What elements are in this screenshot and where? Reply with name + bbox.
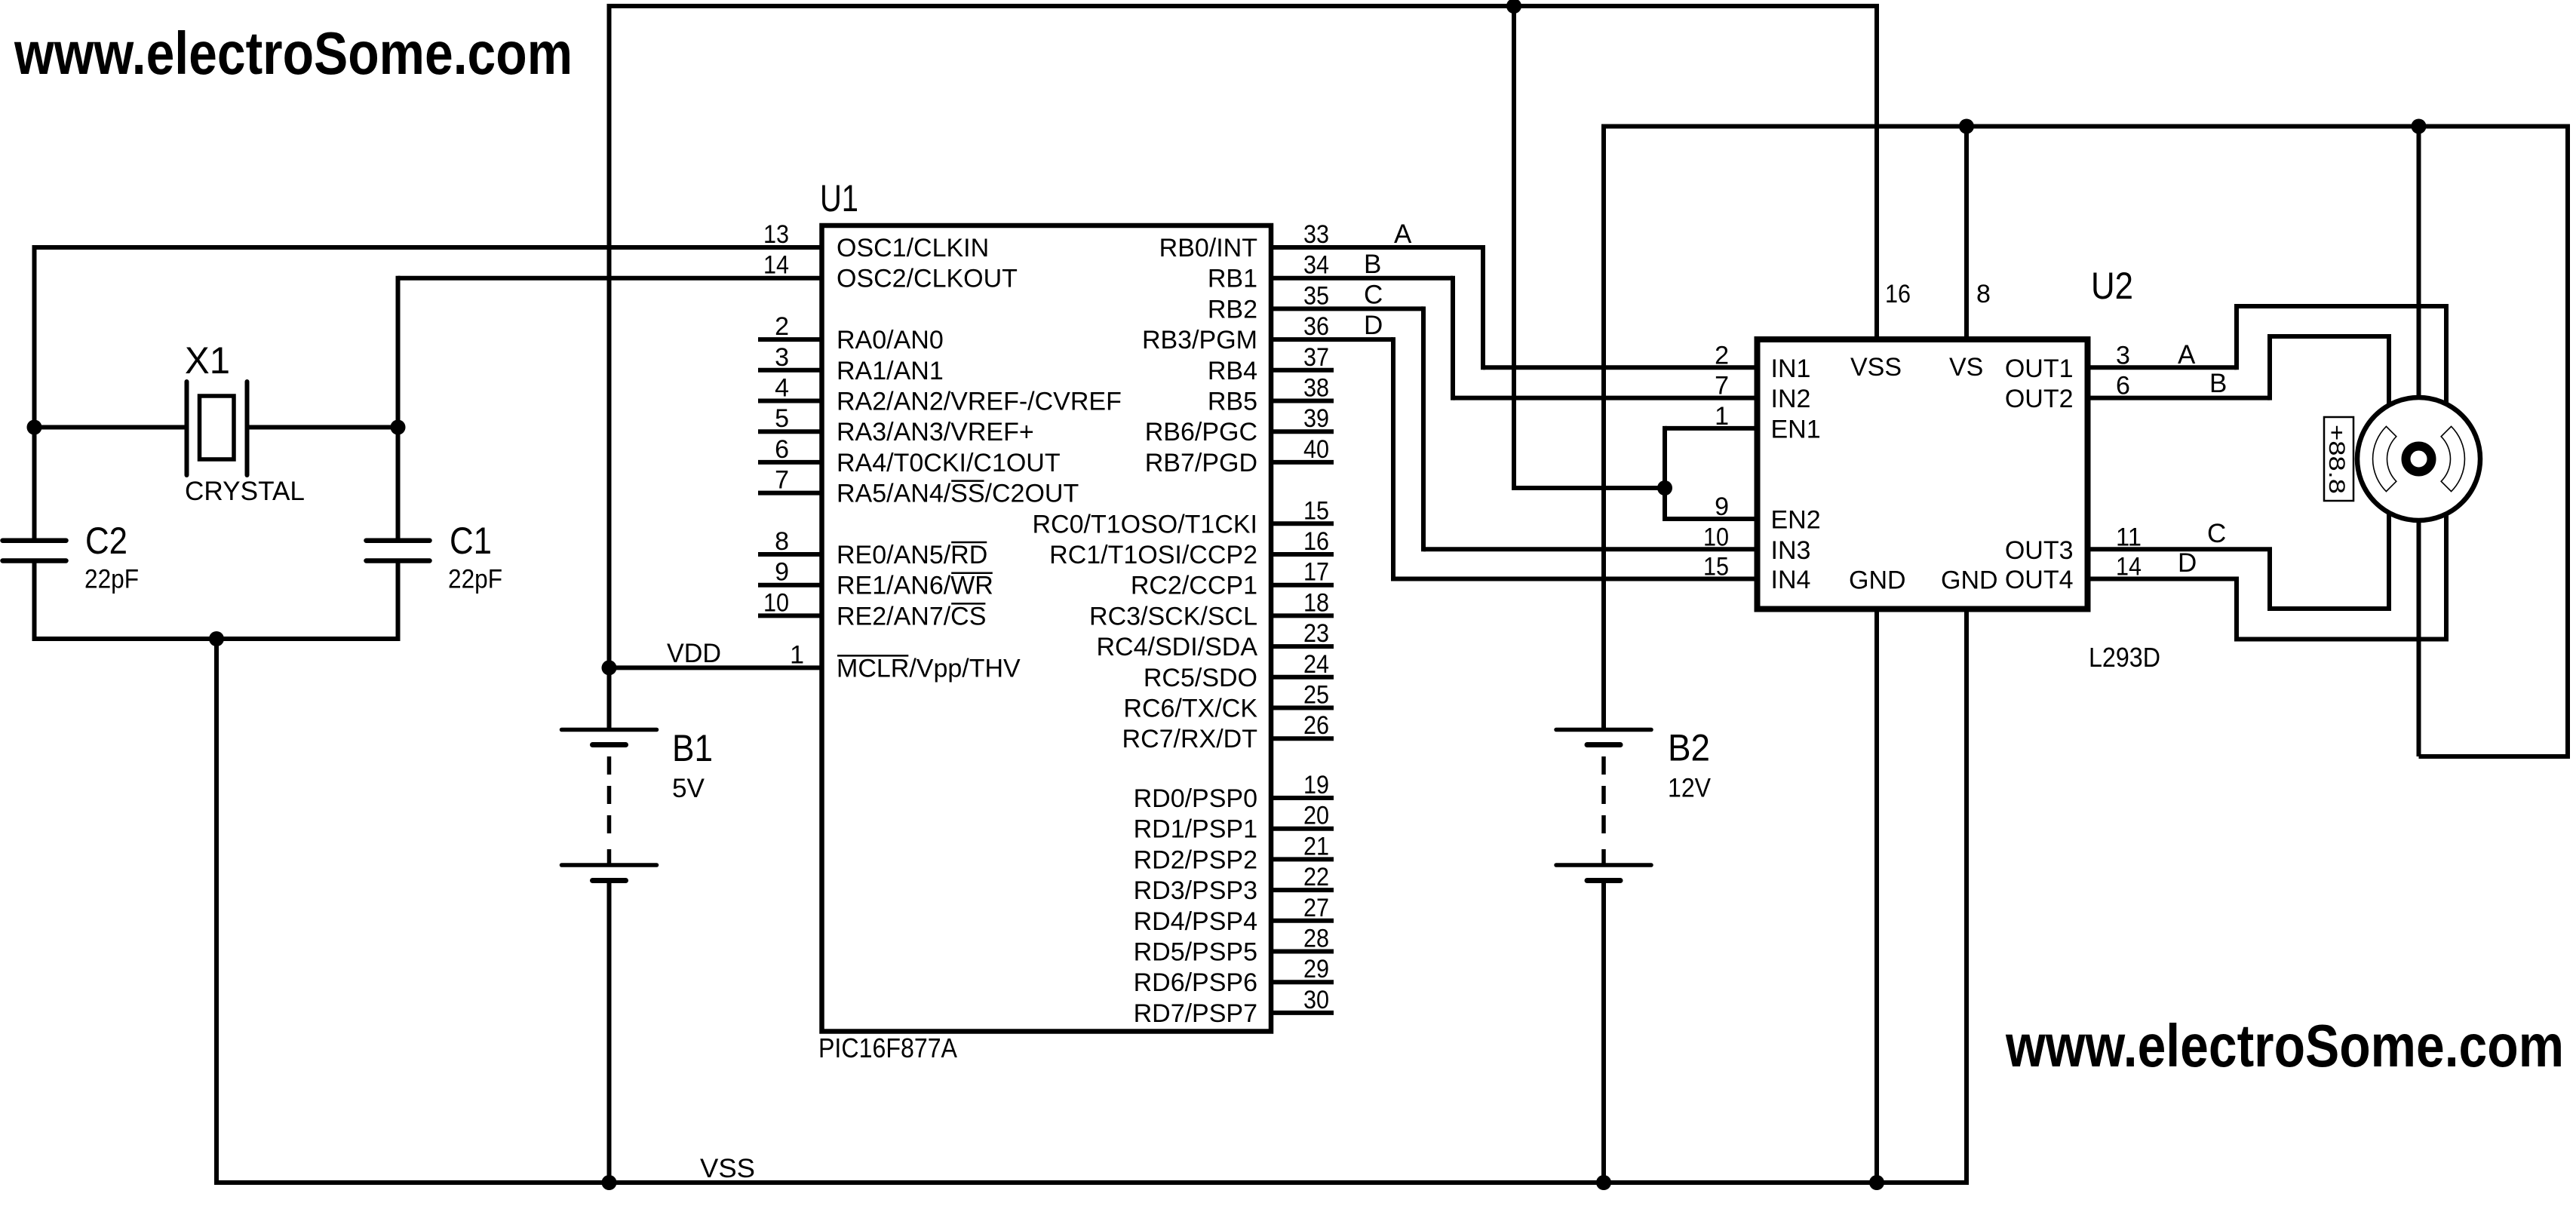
wire: U1 pin 13 to left column	[35, 245, 822, 250]
junction: crystal right node	[391, 420, 406, 435]
svg-text:RC1/T1OSI/CCP2: RC1/T1OSI/CCP2	[1049, 541, 1257, 569]
svg-text:1: 1	[790, 640, 804, 669]
svg-text:17: 17	[1303, 558, 1329, 587]
svg-text:34: 34	[1303, 251, 1329, 280]
wire: right loop vertical	[2565, 124, 2570, 759]
svg-text:39: 39	[1303, 404, 1329, 433]
junction: EN1-EN2 tie	[1657, 480, 1672, 496]
capacitor C2 plates	[3, 538, 66, 543]
wire: C2 bottom lead	[32, 563, 37, 642]
wire: EN1-EN2 connector vertical	[1663, 426, 1667, 521]
svg-text:1: 1	[1715, 402, 1729, 431]
svg-text:C2: C2	[85, 520, 127, 562]
svg-text:38: 38	[1303, 374, 1329, 403]
svg-text:OUT4: OUT4	[2005, 566, 2074, 594]
svg-text:28: 28	[1303, 925, 1329, 953]
svg-text:MCLR/Vpp/THV: MCLR/Vpp/THV	[837, 654, 1021, 683]
stepper motor body	[2357, 397, 2480, 520]
wire: B1 vertical from top rail to battery top	[607, 4, 612, 729]
svg-text:IN1: IN1	[1771, 354, 1811, 383]
svg-text:33: 33	[1303, 220, 1329, 249]
junction: 12V rail to motor common	[2412, 119, 2427, 134]
svg-text:14: 14	[763, 251, 789, 280]
svg-text:RD2/PSP2: RD2/PSP2	[1134, 845, 1257, 874]
wire: U1 pin 14 to crystal right column	[398, 276, 822, 281]
svg-text:RB4: RB4	[1208, 357, 1257, 385]
wire: B2 bottom to VSS rail	[1601, 883, 1606, 1183]
svg-text:U1: U1	[820, 177, 858, 219]
svg-text:29: 29	[1303, 955, 1329, 983]
svg-text:B: B	[1364, 250, 1381, 279]
svg-text:D: D	[1364, 311, 1383, 340]
wire: crystal left lead	[35, 425, 187, 430]
svg-text:19: 19	[1303, 771, 1329, 799]
svg-text:GND: GND	[1941, 566, 1998, 595]
svg-text:8: 8	[1976, 280, 1991, 308]
U1 left pin stubs	[758, 337, 822, 342]
junction: 12V rail to VS pin	[1959, 119, 1974, 134]
wire: left column down to crystal node	[32, 245, 37, 538]
net B: U1 pin 34 RB1 to U2 IN2	[1271, 276, 1453, 281]
svg-text:VSS: VSS	[700, 1154, 755, 1183]
svg-text:RB0/INT: RB0/INT	[1159, 234, 1257, 262]
svg-text:RA5/AN4/SS/C2OUT: RA5/AN4/SS/C2OUT	[837, 480, 1079, 508]
svg-text:IN3: IN3	[1771, 536, 1811, 565]
svg-text:VSS: VSS	[1850, 353, 1902, 382]
svg-text:+88.8: +88.8	[2324, 425, 2349, 494]
svg-text:6: 6	[775, 435, 789, 464]
IC U2 L293D body	[1758, 339, 2088, 609]
wire: VSS bottom rail	[214, 1180, 1969, 1185]
svg-text:27: 27	[1303, 894, 1329, 922]
IC U1 PIC16F877A body	[822, 226, 1272, 1032]
svg-text:RD5/PSP5: RD5/PSP5	[1134, 938, 1257, 967]
svg-text:PIC16F877A: PIC16F877A	[818, 1032, 957, 1063]
junction: U2 GND to VSS rail	[1869, 1175, 1884, 1190]
svg-text:13: 13	[763, 220, 789, 249]
motor left coil arc	[2373, 426, 2396, 491]
svg-text:3: 3	[2116, 341, 2130, 370]
wire: right loop bottom	[2419, 754, 2568, 759]
svg-text:A: A	[2178, 340, 2196, 370]
wire: B2 vertical top	[1601, 124, 1606, 729]
svg-text:3: 3	[775, 343, 789, 372]
svg-text:RA0/AN0: RA0/AN0	[837, 326, 944, 354]
svg-text:OSC1/CLKIN: OSC1/CLKIN	[837, 234, 989, 262]
svg-text:RB3/PGM: RB3/PGM	[1142, 326, 1257, 354]
svg-text:21: 21	[1303, 832, 1329, 861]
svg-text:23: 23	[1303, 619, 1329, 648]
junction: VDD node	[602, 660, 617, 675]
svg-text:RC2/CCP1: RC2/CCP1	[1131, 572, 1257, 600]
svg-text:9: 9	[1715, 492, 1729, 521]
svg-text:36: 36	[1303, 312, 1329, 341]
wire: +12V rail above U2	[1604, 124, 2568, 129]
svg-text:VDD: VDD	[667, 639, 721, 668]
net B motor: OUT2 loop	[2088, 396, 2271, 400]
svg-text:10: 10	[763, 588, 789, 617]
svg-text:35: 35	[1303, 281, 1329, 310]
svg-text:RD1/PSP1: RD1/PSP1	[1134, 815, 1257, 844]
net A: U1 pin 33 RB0 to U2 IN1	[1271, 245, 1483, 250]
svg-text:RC0/T1OSO/T1CKI: RC0/T1OSO/T1CKI	[1032, 510, 1257, 538]
wire: crystal right lead	[247, 425, 398, 430]
wire: EN1 stub	[1665, 426, 1758, 431]
svg-text:B2: B2	[1668, 727, 1710, 769]
svg-text:RD7/PSP7: RD7/PSP7	[1134, 999, 1257, 1028]
svg-text:12V: 12V	[1668, 774, 1712, 803]
svg-text:OUT3: OUT3	[2005, 536, 2074, 565]
svg-text:RA1/AN1: RA1/AN1	[837, 357, 944, 385]
svg-text:22: 22	[1303, 863, 1329, 891]
svg-text:2: 2	[1715, 341, 1729, 370]
motor rpm display +88.8	[2324, 417, 2353, 501]
wire: right column down to crystal node	[396, 276, 401, 538]
net C motor: OUT3 stub	[2088, 547, 2273, 551]
svg-text:40: 40	[1303, 435, 1329, 464]
svg-text:EN1: EN1	[1771, 415, 1821, 443]
svg-text:26: 26	[1303, 711, 1329, 740]
svg-text:7: 7	[775, 466, 789, 495]
wire: VDD wire to U1 pin 1	[609, 665, 822, 670]
wire: C1 bottom lead	[396, 563, 401, 642]
svg-text:RC4/SDI/SDA: RC4/SDI/SDA	[1097, 633, 1258, 661]
wire: EN supply vertical from top rail	[1512, 6, 1516, 490]
net D motor: OUT4 stub	[2088, 577, 2240, 581]
svg-text:2: 2	[775, 312, 789, 341]
svg-text:RA4/T0CKI/C1OUT: RA4/T0CKI/C1OUT	[837, 449, 1061, 477]
svg-text:GND: GND	[1849, 566, 1906, 595]
svg-text:22pF: 22pF	[448, 565, 502, 594]
battery B2 12V	[1556, 728, 1651, 732]
wire: EN supply horizontal to EN connector	[1514, 486, 1665, 490]
svg-text:RE0/AN5/RD: RE0/AN5/RD	[837, 541, 987, 569]
svg-text:20: 20	[1303, 802, 1329, 830]
svg-text:RC3/SCK/SCL: RC3/SCK/SCL	[1089, 602, 1257, 631]
svg-text:11: 11	[2116, 523, 2142, 551]
svg-text:RD3/PSP3: RD3/PSP3	[1134, 876, 1257, 905]
wire: VS8 vertical (12V rail to U2)	[1964, 127, 1969, 340]
svg-text:RA2/AN2/VREF-/CVREF: RA2/AN2/VREF-/CVREF	[837, 388, 1122, 416]
wire: EN2 stub	[1665, 517, 1758, 521]
svg-text:D: D	[2178, 548, 2197, 578]
svg-text:OUT2: OUT2	[2005, 385, 2074, 413]
svg-text:18: 18	[1303, 588, 1329, 617]
U1 right pin stubs	[1271, 368, 1334, 373]
net A motor: OUT1 loop	[2088, 365, 2237, 370]
svg-text:OUT1: OUT1	[2005, 354, 2074, 383]
svg-text:www.electroSome.com: www.electroSome.com	[2005, 1012, 2564, 1079]
svg-text:25: 25	[1303, 681, 1329, 710]
svg-text:IN4: IN4	[1771, 566, 1811, 594]
wire: +5V top rail	[609, 4, 1878, 8]
svg-text:EN2: EN2	[1771, 506, 1821, 535]
svg-text:RC6/TX/CK: RC6/TX/CK	[1123, 695, 1257, 723]
svg-text:B1: B1	[672, 727, 713, 769]
svg-text:15: 15	[1303, 496, 1329, 525]
capacitor C1 plates	[367, 538, 430, 543]
svg-text:L293D: L293D	[2089, 642, 2160, 673]
svg-text:B: B	[2209, 369, 2227, 398]
svg-text:IN2: IN2	[1771, 385, 1811, 413]
svg-text:RE1/AN6/WR: RE1/AN6/WR	[837, 572, 993, 600]
svg-text:www.electroSome.com: www.electroSome.com	[14, 20, 573, 87]
crystal X1	[185, 382, 189, 475]
svg-text:22pF: 22pF	[84, 565, 139, 594]
svg-text:RB5: RB5	[1208, 388, 1257, 416]
svg-text:U2: U2	[2091, 265, 2133, 307]
svg-text:C: C	[1364, 281, 1383, 310]
svg-text:RA3/AN3/VREF+: RA3/AN3/VREF+	[837, 418, 1034, 446]
svg-text:4: 4	[775, 374, 789, 403]
wire: capacitor bottom joining wire	[32, 637, 401, 641]
svg-text:RB1: RB1	[1208, 265, 1257, 293]
svg-text:16: 16	[1885, 280, 1911, 308]
junction: capacitor ground node	[209, 631, 224, 646]
svg-text:15: 15	[1703, 553, 1729, 581]
svg-text:37: 37	[1303, 343, 1329, 372]
svg-text:RC7/RX/DT: RC7/RX/DT	[1122, 725, 1257, 753]
wire: junction down to VSS rail	[214, 639, 219, 1185]
svg-text:10: 10	[1703, 523, 1729, 551]
svg-text:24: 24	[1303, 650, 1329, 679]
svg-text:RD0/PSP0: RD0/PSP0	[1134, 784, 1257, 813]
junction: crystal left node	[27, 420, 42, 435]
motor hub	[2406, 446, 2432, 472]
svg-text:5: 5	[775, 404, 789, 433]
svg-text:16: 16	[1303, 527, 1329, 556]
battery B1 5V	[562, 728, 657, 732]
junction: +5V rail to EN supply	[1506, 0, 1521, 14]
wire: U2 GND pin 13 to VSS rail	[1964, 609, 1969, 1186]
svg-text:C: C	[2207, 519, 2226, 548]
junction: B2 minus to VSS rail	[1596, 1175, 1611, 1190]
motor right coil arc	[2441, 426, 2464, 491]
svg-text:CRYSTAL: CRYSTAL	[185, 477, 305, 506]
svg-text:9: 9	[775, 558, 789, 587]
svg-text:RE2/AN7/CS: RE2/AN7/CS	[837, 602, 986, 631]
wire: B1 bottom to VSS rail	[607, 883, 612, 1183]
svg-text:C1: C1	[450, 520, 492, 562]
svg-text:14: 14	[2116, 553, 2142, 581]
svg-text:RD6/PSP6: RD6/PSP6	[1134, 968, 1257, 997]
svg-text:5V: 5V	[672, 774, 705, 803]
svg-text:OSC2/CLKOUT: OSC2/CLKOUT	[837, 265, 1018, 293]
svg-text:A: A	[1394, 219, 1412, 249]
svg-text:RB6/PGC: RB6/PGC	[1145, 418, 1257, 446]
svg-text:X1: X1	[185, 339, 230, 382]
junction: B1 minus to VSS rail	[602, 1175, 617, 1190]
svg-text:VS: VS	[1949, 353, 1983, 382]
svg-text:7: 7	[1715, 372, 1729, 400]
svg-text:8: 8	[775, 527, 789, 556]
svg-text:RD4/PSP4: RD4/PSP4	[1134, 907, 1257, 936]
svg-text:30: 30	[1303, 986, 1329, 1014]
svg-text:RB7/PGD: RB7/PGD	[1145, 449, 1257, 477]
wire: U2 GND pin 4 to VSS rail	[1874, 609, 1879, 1183]
wire: VSS16 vertical (top rail to U2)	[1874, 4, 1879, 339]
svg-text:RB2: RB2	[1208, 295, 1257, 324]
wire: motor common vertical	[2417, 127, 2421, 757]
net D: U1 pin 36 RB3 to U2 IN4	[1271, 337, 1393, 342]
svg-text:RC5/SDO: RC5/SDO	[1144, 664, 1257, 692]
svg-text:6: 6	[2116, 372, 2130, 400]
net C: U1 pin 35 RB2 to U2 IN3	[1271, 306, 1423, 311]
